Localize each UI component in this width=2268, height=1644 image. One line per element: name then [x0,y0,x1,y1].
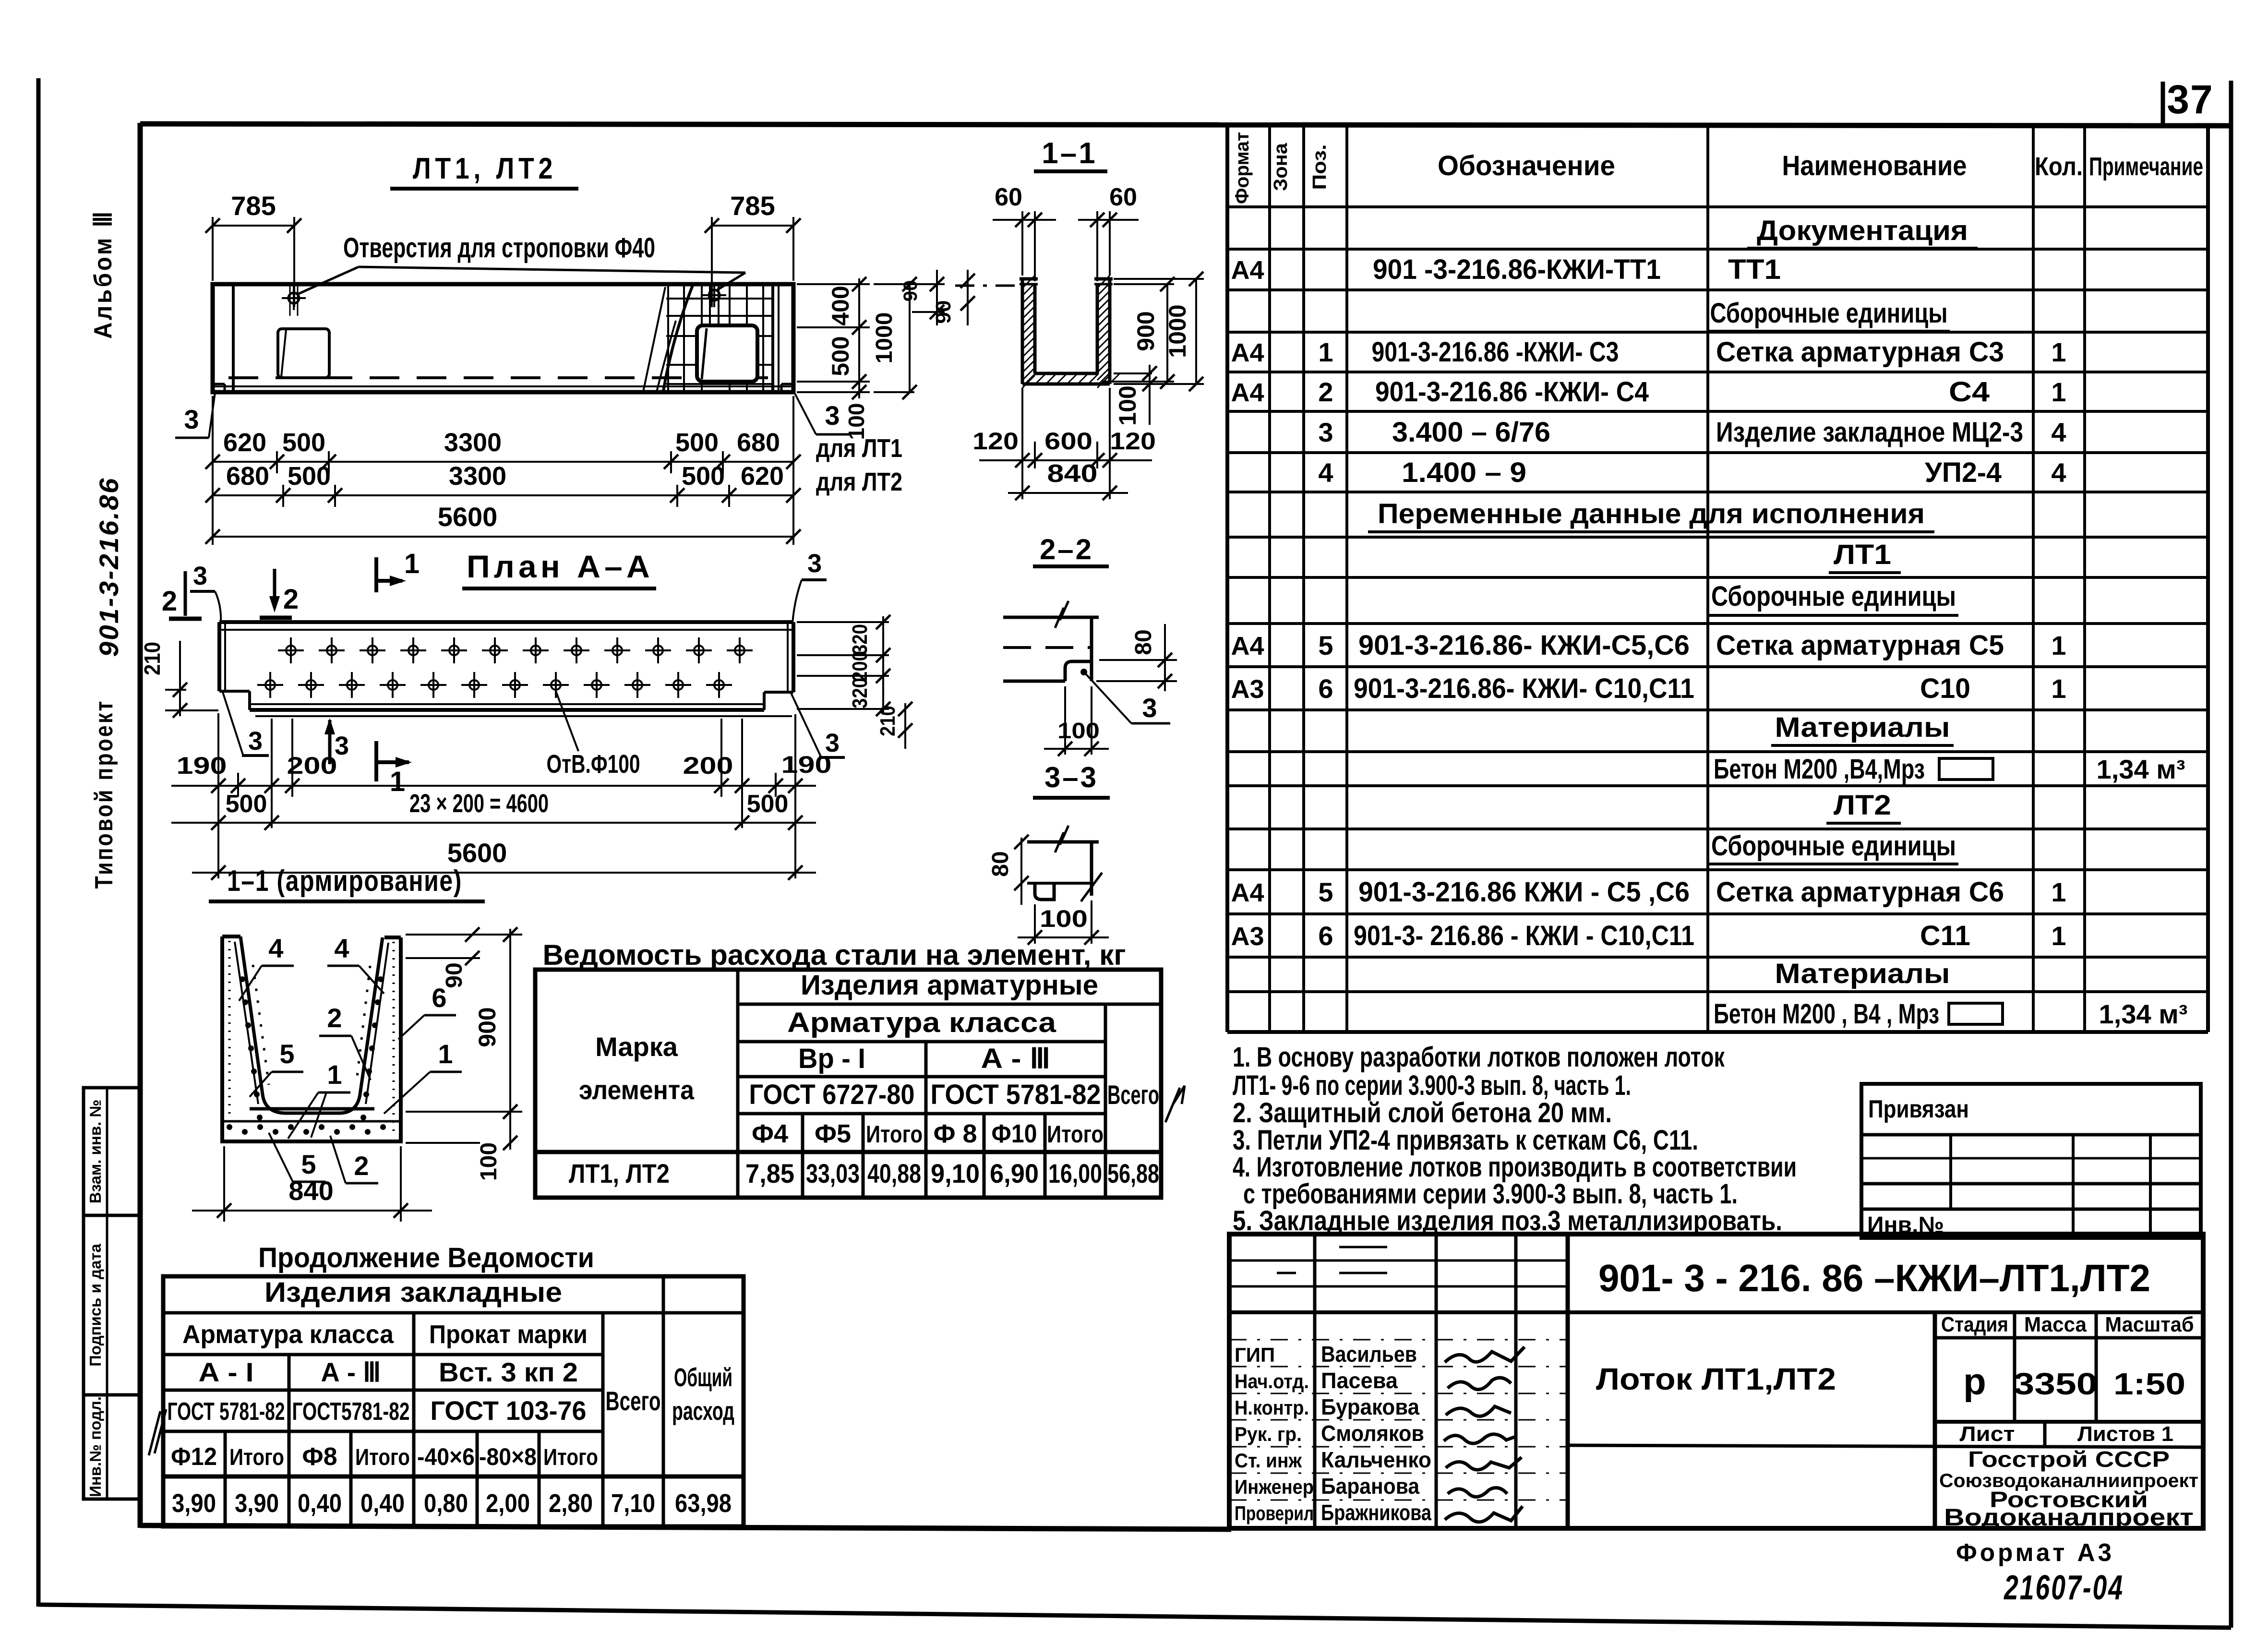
steel table horizontals [738,1003,1161,1006]
svg-text:Примечание: Примечание [2089,152,2203,181]
svg-text:620: 620 [223,428,266,457]
svg-text:Привязан: Привязан [1868,1095,1969,1123]
svg-text:3–3: 3–3 [1044,761,1098,793]
continuation table break marks [149,1411,160,1455]
rebar section bottom slab line [222,1120,401,1123]
svg-text:Материалы: Материалы [1775,958,1950,989]
svg-text:901- 3 - 216. 86 –КЖИ–ЛТ1,Л: 901- 3 - 216. 86 –КЖИ–ЛТ1,ЛТ2 [1598,1257,2150,1299]
detail 3-3 embedded plate [1035,883,1054,900]
svg-text:63,98: 63,98 [675,1489,732,1518]
elevation right strop hole [709,290,720,300]
svg-text:А4: А4 [1231,632,1264,660]
svg-text:Ф12: Ф12 [171,1443,217,1471]
svg-text:2. Защитный слой бетона: 2. Защитный слой бетона 20 мм. [1233,1097,1612,1128]
svg-text:90: 90 [442,962,467,988]
svg-text:4: 4 [1318,457,1333,488]
svg-text:А3: А3 [1231,922,1264,951]
elevation strop tube lines [709,284,711,330]
plan outline left end [217,622,221,691]
svg-text:Бражникова: Бражникова [1321,1500,1431,1525]
svg-text:37: 37 [2167,77,2213,122]
svg-text:2: 2 [1318,377,1333,407]
elevation left strop tube lines [289,284,291,316]
leader 3 bottom-left of plan [223,692,243,755]
section 1-1 U-profile outline [1021,279,1024,384]
right page edge line [2229,81,2233,1628]
svg-text:56,88: 56,88 [1107,1158,1159,1188]
svg-text:60: 60 [1109,183,1137,211]
leader 3 bottom-right of plan [791,693,821,756]
svg-text:3: 3 [1142,693,1157,723]
svg-text:Поз.: Поз. [1309,144,1330,190]
svg-text:Изделия арматурные: Изделия арматурные [801,970,1098,1001]
elevation left hole rect [278,329,329,378]
svg-text:1000: 1000 [872,312,897,364]
detail 2-2 wall lines [1003,616,1099,619]
svg-text:Госстрой СССР: Госстрой СССР [1968,1447,2170,1472]
svg-text:5: 5 [1318,630,1333,660]
svg-text:785: 785 [231,191,276,221]
dimension 840 of 1-1 [1008,492,1128,494]
svg-text:901-3-216.86- КЖИ- С10,С11: 901-3-216.86- КЖИ- С10,С11 [1354,673,1694,704]
svg-text:1–1: 1–1 [1042,137,1097,170]
svg-text:Всего: Всего [1107,1080,1159,1110]
svg-text:0,40: 0,40 [360,1489,405,1518]
svg-text:Зона: Зона [1270,143,1291,191]
svg-text:1: 1 [2051,630,2066,660]
svg-text:1: 1 [2051,337,2066,367]
svg-text:А4: А4 [1231,378,1264,407]
svg-text:500: 500 [682,462,725,491]
rebar section concrete outline [222,936,401,1141]
svg-text:1: 1 [327,1059,342,1090]
svg-text:0,40: 0,40 [298,1489,342,1518]
svg-text:2: 2 [354,1151,369,1181]
svg-text:элемента: элемента [579,1075,695,1105]
svg-text:ГОСТ 103-76: ГОСТ 103-76 [431,1395,587,1426]
svg-text:Итого: Итого [866,1121,923,1148]
svg-text:120: 120 [972,428,1019,455]
rebar mesh in left wall [228,941,231,1137]
svg-text:Всего: Всего [606,1386,661,1416]
rebar bars in bottom [250,1107,374,1111]
spec table horizontals [1227,205,2208,208]
svg-text:Сборочные единицы: Сборочные единицы [1711,830,1956,862]
svg-text:901-3-216.86 -КЖИ- С3: 901-3-216.86 -КЖИ- С3 [1372,336,1619,368]
title block ditto dashes [1339,1246,1387,1248]
detail 3-3 dim 100 [1034,904,1036,944]
detail 3-3 wall lines [1027,840,1099,844]
svg-text:Вр - I: Вр - I [798,1043,865,1074]
svg-text:Формат А3: Формат А3 [1956,1539,2114,1567]
svg-text:680: 680 [226,462,269,491]
svg-text:ЛТ1- 9-6 по серии 3.900-3 в: ЛТ1- 9-6 по серии 3.900-3 вып. 8, часть … [1233,1070,1631,1101]
svg-text:5: 5 [1318,877,1333,907]
svg-text:Арматура класса: Арматура класса [787,1007,1056,1038]
svg-text:-40×6: -40×6 [417,1443,475,1470]
svg-text:Бетон М200 ,В4,Мрз: Бетон М200 ,В4,Мрз [1714,754,1925,785]
svg-text:7,85: 7,85 [745,1158,794,1188]
svg-text:60: 60 [995,183,1022,211]
svg-text:Нач.отд.: Нач.отд. [1235,1370,1309,1392]
svg-text:С4: С4 [1949,376,1990,408]
svg-text:500: 500 [827,336,854,376]
svg-text:4: 4 [2051,457,2066,488]
svg-text:Продолжение Ведомости: Продолжение Ведомости [258,1242,594,1273]
section mark 1 bottom [374,741,378,781]
dimension 5600 elevation [213,536,793,538]
svg-text:840: 840 [288,1176,333,1206]
svg-text:1: 1 [2051,877,2066,907]
svg-text:4: 4 [268,933,283,963]
plan left dim 210 [165,689,186,691]
svg-text:1: 1 [2051,921,2066,951]
binding box Привязан [1861,1084,2201,1238]
svg-text:901-3-216.86- КЖИ-С5,С6: 901-3-216.86- КЖИ-С5,С6 [1358,630,1690,661]
svg-text:Вст. 3 кп 2: Вст. 3 кп 2 [439,1357,578,1387]
svg-text:3350: 3350 [2014,1367,2098,1401]
elevation bottom-right notch [781,383,793,385]
svg-text:Материалы: Материалы [1775,712,1950,743]
svg-text:ГОСТ 6727-80: ГОСТ 6727-80 [749,1079,915,1110]
elevation left end wall line [232,284,235,392]
svg-text:1. В основу разработки лотк: 1. В основу разработки лотков положен ло… [1233,1042,1725,1073]
rebar dim 840 [223,1146,225,1222]
svg-text:Изделия закладные: Изделия закладные [264,1277,562,1308]
dimension 900 right of 1-1 [1114,283,1174,285]
svg-text:1: 1 [404,548,420,579]
svg-text:21607-04: 21607-04 [2004,1569,2124,1607]
rebar dim 90 right [406,934,522,936]
svg-text:ГОСТ 5781-82: ГОСТ 5781-82 [168,1398,285,1426]
main frame top line [140,124,2230,126]
title block outer frame [1229,1234,2203,1528]
svg-text:210: 210 [876,706,900,736]
svg-text:Бетон М200 , В4 , Мрз: Бетон М200 , В4 , Мрз [1714,998,1939,1030]
svg-text:р: р [1963,1360,1986,1403]
svg-text:2,00: 2,00 [486,1489,530,1518]
dimension 785 left [212,217,214,281]
svg-text:1000: 1000 [1164,304,1191,358]
svg-text:500: 500 [282,428,325,457]
svg-text:0,80: 0,80 [424,1489,468,1518]
svg-text:УП2-4: УП2-4 [1925,457,2002,488]
svg-text:5: 5 [279,1039,294,1069]
svg-text:Сетка арматурная С5: Сетка арматурная С5 [1716,630,2004,661]
svg-text:для ЛТ1: для ЛТ1 [816,434,902,463]
svg-text:500: 500 [226,790,267,818]
svg-text:320: 320 [848,678,872,708]
plan hole crosses top row [286,646,296,655]
svg-text:900: 900 [474,1007,501,1047]
main frame bottom-left segment [140,1525,1231,1529]
dimension row для ЛТ1: 620 500 3300 500 680 [213,461,793,463]
svg-text:Пасева: Пасева [1321,1368,1398,1393]
svg-text:ЛТ1, ЛТ2: ЛТ1, ЛТ2 [413,152,557,185]
dimension row для ЛТ2: 680 500 3300 500 620 [213,494,793,496]
svg-text:Инв.№ подл.: Инв.№ подл. [86,1396,104,1497]
svg-text:С10: С10 [1920,673,1970,704]
svg-text:90: 90 [900,280,921,302]
svg-text:Масса: Масса [2024,1313,2087,1336]
svg-text:6,90: 6,90 [990,1158,1039,1188]
svg-text:А - I: А - I [199,1357,254,1387]
elevation beam bottom double line [213,385,793,387]
svg-text:901-3-216.86 -КЖИ- С4: 901-3-216.86 -КЖИ- С4 [1375,376,1649,408]
plan right dim 210 [904,703,906,749]
svg-text:3.400 – 6/76: 3.400 – 6/76 [1392,417,1550,448]
dimension 60 left top of 1-1 [1021,211,1023,276]
dimension 785 right [711,217,713,307]
svg-text:2: 2 [162,586,177,617]
dimension 1000 right of elevation [874,283,914,285]
dimension 120 600 120 of 1-1 [979,459,1152,461]
svg-text:1: 1 [2051,673,2066,704]
svg-text:Обозначение: Обозначение [1438,150,1615,181]
svg-text:3: 3 [184,404,199,434]
svg-text:4: 4 [2051,417,2066,447]
svg-text:680: 680 [737,428,780,457]
svg-text:С11: С11 [1920,920,1970,951]
svg-text:901-3-216.86 КЖИ - С5 ,С6: 901-3-216.86 КЖИ - С5 ,С6 [1358,876,1690,908]
svg-text:А - Ⅲ: А - Ⅲ [981,1043,1051,1074]
svg-text:ГОСТ5781-82: ГОСТ5781-82 [292,1398,410,1426]
svg-text:1: 1 [2051,377,2066,407]
svg-text:А3: А3 [1231,675,1264,704]
section mark 1 top [374,557,378,592]
svg-text:Прокат марки: Прокат марки [429,1320,588,1349]
svg-text:500: 500 [288,462,331,491]
svg-text:210: 210 [140,642,165,675]
svg-text:Подпись и дата: Подпись и дата [86,1244,104,1367]
svg-text:1: 1 [390,766,405,797]
svg-text:40,88: 40,88 [867,1158,921,1188]
rebar dim 100 right [406,1142,480,1144]
svg-text:ГОСТ 5781-82: ГОСТ 5781-82 [931,1079,1101,1110]
svg-text:620: 620 [741,462,784,491]
svg-text:А4: А4 [1231,256,1264,285]
svg-text:Итого: Итого [1047,1121,1104,1148]
detail 3-3 break slash [1081,873,1102,901]
svg-text:600: 600 [1044,428,1092,455]
svg-text:1.400 – 9: 1.400 – 9 [1402,457,1526,488]
svg-text:Баранова: Баранова [1321,1474,1419,1499]
svg-text:3: 3 [807,549,822,578]
svg-text:А4: А4 [1231,338,1264,367]
svg-text:Сборочные единицы: Сборочные единицы [1710,298,1948,329]
svg-text:900: 900 [1132,311,1159,351]
svg-text:Буракова: Буракова [1321,1394,1419,1419]
svg-text:200: 200 [848,651,872,682]
svg-text:2: 2 [327,1003,342,1033]
svg-text:1:50: 1:50 [2113,1367,2185,1401]
elevation left strop hole [288,293,299,303]
steel table frame [535,970,1161,1198]
svg-text:2,80: 2,80 [549,1489,593,1518]
svg-text:23 × 200 = 4600: 23 × 200 = 4600 [409,789,549,818]
svg-text:Ф10: Ф10 [992,1119,1037,1148]
svg-text:500: 500 [675,428,719,457]
svg-text:200: 200 [683,752,733,779]
svg-text:Марка: Марка [595,1032,678,1062]
svg-text:Отверстия для строповки Ф40: Отверстия для строповки Ф40 [343,232,655,264]
svg-text:ЛТ2: ЛТ2 [1834,790,1891,821]
elevation bottom-left notch [213,383,225,385]
svg-text:Сборочные единицы: Сборочные единицы [1711,581,1956,612]
page number tick [2161,82,2165,125]
svg-text:А4: А4 [1231,878,1264,907]
svg-text:840: 840 [1047,460,1098,488]
plan dim row 500 / 23x200=4600 / 500 [171,822,816,824]
plan lower extension lines [217,713,219,878]
svg-text:80: 80 [1131,629,1156,655]
svg-text:120: 120 [1110,428,1156,455]
rebar dim 900 right [406,1111,522,1113]
continuation table frame [163,1276,744,1526]
detail 3-3 dim 80 [1020,838,1022,905]
svg-text:Изделие закладное МЦ2-3: Изделие закладное МЦ2-3 [1716,417,2023,448]
svg-text:2–2: 2–2 [1040,533,1093,565]
svg-text:1: 1 [1318,337,1333,367]
svg-text:Инженер: Инженер [1235,1476,1314,1498]
plan dim row 190/200 left and right [171,785,816,787]
svg-text:Рук. гр.: Рук. гр. [1235,1423,1302,1445]
rebar dots bottom slab [227,1124,232,1130]
svg-text:3: 3 [193,562,207,590]
svg-text:5: 5 [301,1149,316,1179]
svg-text:Васильев: Васильев [1321,1342,1417,1367]
svg-text:3300: 3300 [449,462,506,491]
bottom page border line [38,1605,2231,1628]
svg-text:Ст. инж: Ст. инж [1235,1449,1302,1472]
left page edge line [36,78,41,1607]
svg-text:Арматура класса: Арматура класса [182,1320,394,1349]
svg-text:Лист: Лист [1960,1422,2015,1446]
elevation lower dim extension lines [212,396,214,545]
plan dim 5600 [192,872,816,874]
svg-text:3,90: 3,90 [172,1489,216,1518]
margin stamp boxes [84,1088,139,1499]
svg-text:901 -3-216.86-КЖИ-ТТ1: 901 -3-216.86-КЖИ-ТТ1 [1373,254,1661,285]
dimension 90 top right of elevation [912,283,945,285]
plan outline bottom [250,708,764,712]
svg-text:190: 190 [177,752,227,779]
elevation dashed axis line [228,376,768,379]
svg-text:6: 6 [1318,921,1333,951]
detail 2-2 leader 3 [1086,674,1131,723]
svg-text:100: 100 [1057,718,1100,743]
spec table verticals [1225,124,1229,1032]
svg-text:80: 80 [988,851,1013,876]
svg-text:Ф4: Ф4 [752,1119,788,1148]
svg-text:3300: 3300 [444,428,502,457]
detail 2-2 dim 100 [1064,686,1066,755]
rebar mesh in right wall [393,942,395,1137]
svg-text:Ф5: Ф5 [815,1119,851,1148]
svg-text:-80×8: -80×8 [479,1443,537,1470]
svg-text:Ф8: Ф8 [302,1443,337,1471]
section 1-1 hatching [1022,276,1035,288]
svg-text:1: 1 [438,1039,453,1069]
detail 2-2 dim 80 [1099,659,1177,661]
svg-text:3: 3 [1318,417,1333,447]
svg-text:Общий: Общий [674,1363,732,1392]
svg-text:Кальченко: Кальченко [1321,1447,1431,1472]
svg-text:Ф 8: Ф 8 [933,1119,977,1148]
svg-text:3,90: 3,90 [235,1489,279,1518]
svg-text:ЛТ1, ЛТ2: ЛТ1, ЛТ2 [569,1158,670,1188]
svg-text:ЛТ1: ЛТ1 [1834,539,1891,570]
svg-text:1–1 (армирование): 1–1 (армирование) [227,864,462,898]
svg-text:ТТ1: ТТ1 [1728,254,1781,285]
section mark 2 top [273,569,276,608]
svg-text:16,00: 16,00 [1048,1158,1102,1188]
steel table continuation arrow [1165,1088,1180,1122]
detail 2-2 embedded plate [1065,661,1092,681]
svg-text:Проверил: Проверил [1235,1502,1314,1524]
svg-text:400: 400 [827,286,854,325]
svg-text:Лоток ЛТ1,ЛТ2: Лоток ЛТ1,ЛТ2 [1596,1362,1836,1396]
elevation mesh grid [667,285,669,391]
continuation table horizontals [163,1311,744,1315]
elevation beam outline [213,284,793,392]
elevation right end wall lines [771,284,774,392]
title block verticals [1313,1234,1317,1526]
svg-text:Стадия: Стадия [1941,1313,2008,1336]
svg-text:200: 200 [287,752,337,779]
dimension 1000 right of 1-1 [1114,278,1204,280]
svg-text:33,03: 33,03 [806,1158,860,1188]
plan outline right end [792,622,795,692]
svg-text:Наименование: Наименование [1782,150,1967,181]
signatures [1445,1347,1524,1362]
plan outline top [219,620,793,624]
svg-text:Н.контр.: Н.контр. [1235,1396,1309,1419]
continuation table verticals [662,1276,665,1526]
svg-text:Документация: Документация [1757,215,1968,246]
svg-text:1,34 м³: 1,34 м³ [2097,754,2185,784]
svg-text:Водоканалпроект: Водоканалпроект [1944,1504,2194,1531]
svg-text:Сетка арматурная С6: Сетка арматурная С6 [1716,876,2004,908]
svg-text:расход: расход [672,1397,734,1426]
svg-text:190: 190 [781,751,832,778]
section mark 3 bottom-middle [328,720,332,764]
steel table verticals [736,970,740,1198]
svg-text:ГИП: ГИП [1235,1344,1275,1366]
svg-text:90: 90 [932,300,955,324]
svg-text:Масштаб: Масштаб [2105,1313,2194,1336]
svg-text:Итого: Итого [355,1445,410,1470]
svg-text:Формат: Формат [1232,132,1253,204]
svg-text:6: 6 [1318,673,1333,704]
dimension 100 bottom right of 1-1 [1114,372,1152,374]
rebar dots walls [240,976,245,982]
svg-text:ОтВ.Ф100: ОтВ.Ф100 [547,750,640,779]
dimension 60 right top of 1-1 [1096,211,1098,281]
svg-text:4: 4 [334,933,349,963]
svg-text:Переменные данные для испол: Переменные данные для исполнения [1378,498,1925,529]
svg-text:5600: 5600 [438,502,498,532]
svg-text:3: 3 [248,727,263,756]
svg-text:для ЛТ2: для ЛТ2 [816,468,902,496]
svg-text:901-3-216.86: 901-3-216.86 [94,477,124,657]
plan hole crosses bottom row [265,680,275,690]
dimension 90 left of 1-1 [955,285,1020,287]
svg-text:Итого: Итого [543,1445,598,1470]
title block horizontals [1229,1260,1568,1262]
svg-text:Смоляков: Смоляков [1321,1421,1424,1446]
elevation right hole rect [697,325,757,382]
